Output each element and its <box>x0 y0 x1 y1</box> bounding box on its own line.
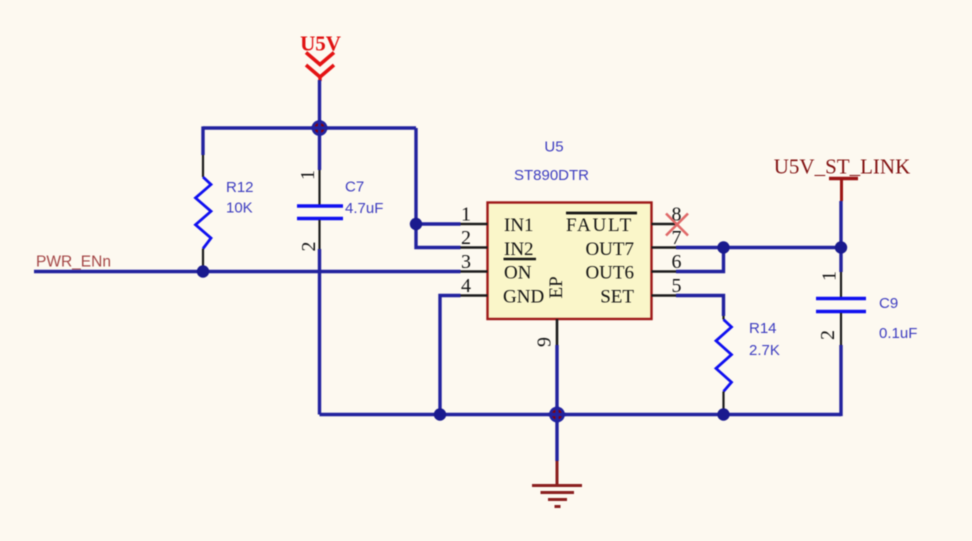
svg-text:U5: U5 <box>544 139 563 156</box>
svg-text:2: 2 <box>817 330 839 340</box>
wire pin5 to R14 <box>676 296 724 317</box>
junction GND branch rail <box>434 408 446 420</box>
wire GND pin4 branch <box>440 296 461 415</box>
wire PWR_ENn row (pin3) <box>34 270 461 273</box>
pin 8 stub <box>652 223 677 226</box>
wire pin7 row <box>676 246 841 249</box>
svg-text:R14: R14 <box>749 320 777 337</box>
pin 2 stub <box>461 246 488 249</box>
junction pin6/pin7 <box>717 241 729 253</box>
svg-text:9: 9 <box>534 337 556 347</box>
pin 1 stub <box>461 223 488 226</box>
svg-text:2: 2 <box>461 227 471 249</box>
overbar FAULT <box>566 212 637 215</box>
svg-text:5: 5 <box>672 275 682 297</box>
svg-text:ON: ON <box>504 263 532 284</box>
pin 7 stub <box>652 246 677 249</box>
wire top rail <box>203 126 416 129</box>
power port U5V <box>300 32 341 82</box>
wire pin6 up <box>676 248 724 272</box>
wire C9 down to rail <box>839 345 842 416</box>
svg-text:OUT6: OUT6 <box>585 263 634 284</box>
svg-text:4.7uF: 4.7uF <box>345 200 383 217</box>
capacitor C9 <box>816 248 917 346</box>
svg-text:10K: 10K <box>226 200 253 217</box>
svg-text:IN2: IN2 <box>504 239 534 260</box>
capacitor C7 <box>297 128 383 252</box>
svg-text:2: 2 <box>298 242 320 252</box>
pin 3 stub <box>461 270 488 273</box>
junction pin1 branch <box>410 218 422 230</box>
svg-text:6: 6 <box>672 251 682 273</box>
svg-text:3: 3 <box>461 251 471 273</box>
svg-text:IN1: IN1 <box>504 215 534 236</box>
ground <box>532 415 582 507</box>
IC U5 box <box>488 203 652 320</box>
svg-text:U5V: U5V <box>300 32 341 56</box>
svg-text:FAULT: FAULT <box>566 215 633 236</box>
wire U5V_ST_LINK drop <box>839 201 842 248</box>
svg-text:0.1uF: 0.1uF <box>879 325 917 342</box>
svg-text:4: 4 <box>461 275 471 297</box>
junction C9 top <box>835 241 847 253</box>
svg-text:EP: EP <box>546 276 567 298</box>
svg-text:ST890DTR: ST890DTR <box>514 167 589 184</box>
svg-text:C9: C9 <box>879 295 898 312</box>
pin 9 stub <box>556 319 559 345</box>
wire bottom rail <box>320 413 842 416</box>
svg-text:GND: GND <box>503 287 544 308</box>
pin 5 stub <box>652 294 677 297</box>
wire C7 down to rail <box>318 249 321 415</box>
junction ground cross <box>548 406 566 423</box>
no-connect X pin 8 <box>666 214 688 236</box>
svg-text:R12: R12 <box>226 179 254 196</box>
svg-text:2.7K: 2.7K <box>749 342 780 359</box>
resistor R12 <box>196 155 254 270</box>
svg-text:C7: C7 <box>345 179 364 196</box>
junction R12/PWR_ENn <box>197 265 209 277</box>
overbar ON <box>504 258 537 260</box>
pin 6 stub <box>652 270 677 273</box>
wire pin1 branch <box>416 222 461 225</box>
wire right column from top rail to pin1/pin2 <box>416 128 461 248</box>
pin 4 stub <box>461 294 488 297</box>
svg-text:1: 1 <box>819 271 841 281</box>
svg-text:1: 1 <box>297 170 319 180</box>
svg-text:U5V_ST_LINK: U5V_ST_LINK <box>774 155 911 179</box>
power port U5V_ST_LINK <box>774 155 911 202</box>
svg-text:PWR_ENn: PWR_ENn <box>36 254 111 271</box>
svg-text:SET: SET <box>600 287 634 308</box>
svg-text:1: 1 <box>461 204 471 226</box>
svg-text:OUT7: OUT7 <box>585 239 634 260</box>
wire left column top <box>201 126 204 155</box>
junction R14 rail <box>717 408 729 420</box>
resistor R14 <box>716 316 780 413</box>
junction U5V cross <box>311 120 328 136</box>
wire U5V drop <box>318 80 321 128</box>
svg-text:7: 7 <box>672 227 682 249</box>
wire pin9 down <box>555 345 558 415</box>
